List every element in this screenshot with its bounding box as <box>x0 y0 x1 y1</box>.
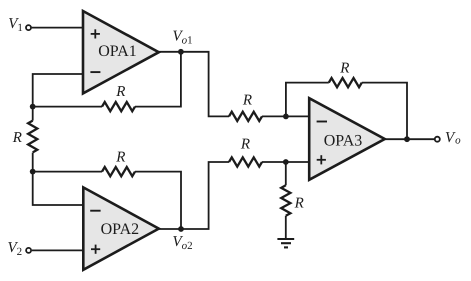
resistor R5 (OPA3 feedback) <box>329 78 362 87</box>
wire node Vo1 right and down to input resistor R3 <box>181 52 229 117</box>
svg-text:R: R <box>12 130 22 146</box>
svg-text:OPA1: OPA1 <box>98 43 137 60</box>
terminal V1 <box>26 25 31 30</box>
wire gain resistor R to node B <box>32 153 34 172</box>
resistor R2 (OPA2 feedback) <box>102 167 135 176</box>
svg-text:OPA3: OPA3 <box>324 132 363 149</box>
wire node C to OPA3 inverting input <box>286 115 310 117</box>
OPA3 minus sign <box>317 121 327 123</box>
svg-text:R: R <box>115 84 125 100</box>
node A junction dot <box>30 104 36 110</box>
wire node A to gain resistor R <box>32 107 34 121</box>
ground <box>277 239 294 247</box>
wire node D to OPA3 noninverting input <box>286 161 310 163</box>
wire feedback resistor R5 down to output node E <box>362 83 407 140</box>
wire node D down to grounded resistor R6 <box>285 162 287 185</box>
resistor R6 (OPA3 noninverting input to ground) <box>281 185 290 215</box>
node D junction dot <box>283 159 289 165</box>
svg-text:R: R <box>294 195 304 211</box>
node E junction dot <box>404 136 410 142</box>
wire node C up to feedback resistor R5 <box>286 83 329 117</box>
svg-text:R: R <box>339 61 349 77</box>
wire OPA1 inverting input to left bus <box>33 74 84 107</box>
wire resistor R4 to node D <box>262 161 286 163</box>
OPA3 plus sign <box>317 155 326 164</box>
node Vo2 junction dot <box>178 226 184 232</box>
resistor R4 (Vo2 to OPA3 noninverting input) <box>229 157 262 166</box>
wire node B to feedback resistor R2 <box>33 171 102 173</box>
wire V1 to OPA1 noninverting input <box>32 27 84 29</box>
svg-text:OPA2: OPA2 <box>101 221 140 238</box>
resistor R gain (vertical between node A and node B) <box>28 121 37 153</box>
node B junction dot <box>30 169 36 175</box>
terminal V2 <box>26 248 31 253</box>
wire node A to feedback resistor R1 <box>33 106 102 108</box>
wire OPA3 output to node E <box>384 138 407 140</box>
wire OPA2 output to node Vo2 <box>158 228 181 230</box>
wire feedback resistor R2 down to node Vo2 <box>135 172 181 229</box>
svg-text:R: R <box>240 137 250 153</box>
svg-text:R: R <box>115 150 125 166</box>
OPA1 minus sign <box>90 71 100 73</box>
wire feedback resistor R1 up to node Vo1 <box>135 52 181 107</box>
resistor R1 (OPA1 feedback) <box>102 102 135 111</box>
OPA1 plus sign <box>91 29 100 38</box>
terminal Vo <box>435 137 440 142</box>
OPA2 plus sign <box>91 245 100 254</box>
op-amp OPA1 <box>83 11 159 93</box>
wire resistor R6 to ground <box>285 216 287 239</box>
OPA2 minus sign <box>90 210 100 212</box>
node Vo1 junction dot <box>178 49 184 55</box>
wire V2 to OPA2 noninverting input <box>32 249 84 251</box>
wire resistor R3 to node C <box>262 115 286 117</box>
node C junction dot <box>283 114 289 120</box>
op-amp OPA3 <box>309 98 385 180</box>
svg-text:R: R <box>242 93 252 109</box>
wire OPA1 output to node Vo1 <box>158 51 181 53</box>
wire node Vo2 right and up to input resistor R4 <box>181 162 229 229</box>
wire node E to Vo terminal <box>407 138 434 140</box>
resistor R3 (Vo1 to OPA3 inverting input) <box>229 112 262 121</box>
op-amp OPA2 <box>83 187 159 269</box>
wire node B down to OPA2 inverting input <box>33 172 84 205</box>
